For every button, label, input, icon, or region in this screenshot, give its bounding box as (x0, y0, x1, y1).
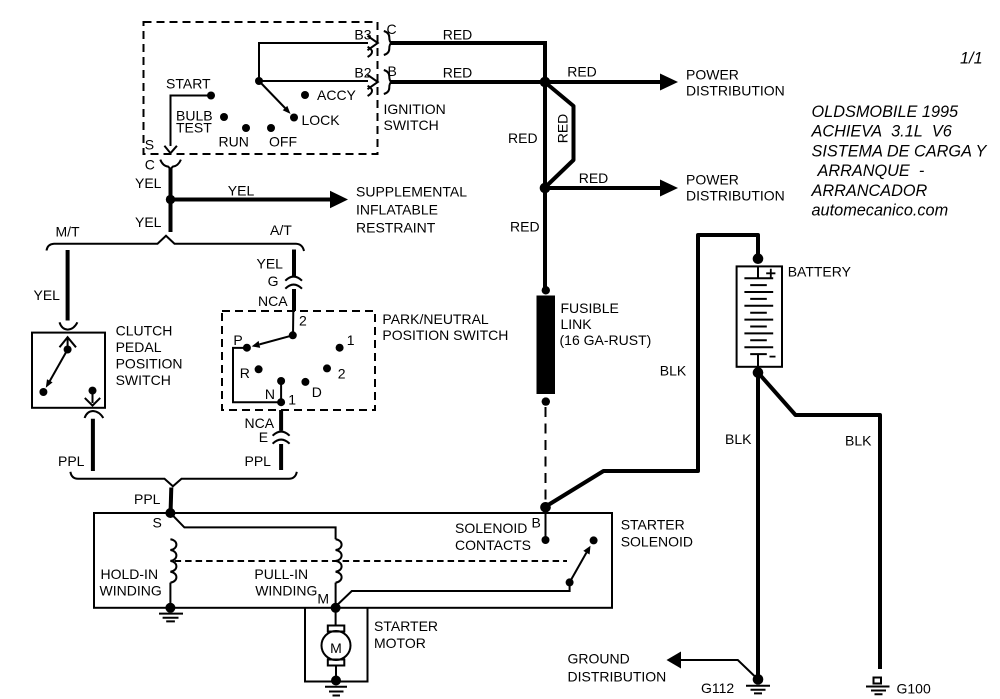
svg-text:P: P (233, 332, 242, 348)
svg-text:PPL: PPL (58, 453, 85, 469)
connector female cap below clutch switch (85, 411, 104, 418)
svg-text:BLK: BLK (725, 431, 752, 447)
svg-text:C: C (387, 21, 397, 37)
svg-text:ARRANQUE -: ARRANQUE - (817, 162, 925, 180)
wire M to movable contact (336, 584, 570, 607)
wire NCA below park/neutral (279, 410, 283, 431)
svg-text:CONTACTS: CONTACTS (455, 537, 531, 553)
starter solenoid box (94, 513, 612, 608)
svg-text:PULL-IN: PULL-IN (254, 566, 308, 582)
connector G double arc (285, 277, 302, 289)
ground symbol G112 (746, 686, 770, 694)
wire YEL arrow to SIR (171, 198, 333, 202)
motor circle M1 (322, 631, 351, 660)
wire motor to ground (335, 666, 337, 679)
wire BLK battery negative to G112 (756, 373, 760, 678)
svg-text:DISTRIBUTION: DISTRIBUTION (686, 188, 785, 204)
wire START to S terminal (171, 96, 212, 147)
wire RED arrow to power distribution 2 (545, 186, 662, 190)
battery top terminal dot (753, 253, 764, 264)
wire RED bypass loop (547, 84, 574, 187)
contact 2 (right) (323, 364, 331, 372)
clutch switch right contact (89, 387, 97, 395)
svg-text:automecanico.com: automecanico.com (812, 202, 949, 220)
wire N upper to N-1 (280, 381, 282, 402)
clutch switch entry arrow (up) (60, 337, 77, 349)
svg-text:TEST: TEST (176, 120, 212, 136)
svg-text:MOTOR: MOTOR (374, 635, 426, 651)
svg-text:ARRANCADOR: ARRANCADOR (811, 182, 928, 200)
svg-text:OLDSMOBILE 1995: OLDSMOBILE 1995 (812, 103, 960, 121)
svg-text:1: 1 (347, 332, 355, 348)
svg-text:(16 GA-RUST): (16 GA-RUST) (560, 332, 652, 348)
ignition switch dashed enclosure (144, 22, 378, 154)
svg-text:NCA: NCA (258, 293, 288, 309)
svg-text:RUN: RUN (219, 134, 249, 150)
svg-text:G112: G112 (701, 680, 734, 696)
ignition switch movable arm to LOCK (259, 81, 287, 110)
arrowhead power distribution 2 (660, 180, 678, 197)
connector female cup above clutch switch (60, 322, 78, 329)
svg-text:M/T: M/T (56, 224, 81, 240)
motor top brush (328, 626, 345, 632)
movable contact lower dot (566, 578, 574, 586)
contact upper dot (590, 536, 598, 544)
svg-text:D: D (312, 384, 322, 400)
svg-text:POSITION: POSITION (116, 356, 183, 372)
wire dashed fusible link to solenoid B (545, 407, 547, 502)
svg-text:B2: B2 (354, 65, 371, 81)
svg-text:1/1: 1/1 (960, 50, 983, 68)
wire B junction into solenoid (545, 507, 547, 540)
contact RUN (242, 124, 250, 132)
battery top stub (757, 266, 759, 278)
svg-text:RED: RED (443, 27, 473, 43)
contact D (301, 378, 309, 386)
svg-text:BATTERY: BATTERY (788, 264, 852, 280)
connector male arrow B3 (368, 36, 378, 50)
park/neutral movable arm (260, 335, 293, 344)
fusible link bottom dot (542, 397, 550, 405)
wire BLK battery negative to G100 (758, 373, 880, 669)
clutch arm arrowhead (46, 379, 53, 388)
wire YEL A/T branch (292, 250, 296, 277)
svg-text:G100: G100 (897, 681, 931, 697)
battery plates (744, 278, 773, 354)
wire YEL below junction (169, 201, 173, 232)
svg-text:YEL: YEL (257, 256, 284, 272)
svg-text:STARTER: STARTER (374, 618, 438, 634)
G112 ground dot (753, 674, 764, 685)
hold-in winding coil L1 (170, 539, 176, 582)
svg-text:GROUND: GROUND (568, 651, 630, 667)
arrowhead power distribution 1 (660, 74, 678, 91)
svg-text:RED: RED (555, 114, 571, 144)
svg-text:PPL: PPL (245, 453, 272, 469)
contact 1 (top right) (336, 344, 344, 352)
svg-text:R: R (240, 365, 250, 381)
svg-text:WINDING: WINDING (255, 583, 317, 599)
wire RED from B (390, 80, 545, 84)
svg-text:CLUTCH: CLUTCH (116, 323, 173, 339)
svg-text:BLK: BLK (845, 433, 872, 449)
overbrace M/T A/T split (47, 236, 305, 251)
svg-text:YEL: YEL (135, 214, 162, 230)
battery minus sign (770, 356, 776, 358)
connector female cup S/C (160, 160, 181, 170)
svg-text:N: N (265, 386, 275, 402)
ground distribution arrowhead (667, 652, 682, 669)
svg-text:SOLENOID: SOLENOID (455, 520, 527, 536)
ignition switch arm arrowhead (283, 106, 291, 114)
wire inside to pivot (292, 311, 294, 335)
svg-text:OFF: OFF (269, 134, 297, 150)
contact N-1 (277, 398, 285, 406)
svg-text:HOLD-IN: HOLD-IN (101, 566, 159, 582)
clutch pedal position switch box (32, 333, 105, 408)
svg-text:1: 1 (288, 392, 296, 408)
clutch switch exit arrow (down) (85, 394, 100, 406)
connector female C curly (384, 31, 392, 55)
svg-text:POWER: POWER (686, 172, 739, 188)
contact N upper (277, 377, 285, 385)
junction dot YEL (166, 195, 175, 204)
wire hold-in to ground (169, 583, 171, 604)
svg-text:STARTER: STARTER (621, 517, 685, 533)
svg-text:SWITCH: SWITCH (116, 372, 171, 388)
wire B2 (pivot to terminal B) (259, 80, 368, 82)
ground symbol (motor) (325, 687, 347, 696)
wire RED from C (390, 43, 545, 82)
svg-text:RED: RED (508, 130, 538, 146)
motor bottom brush (328, 660, 345, 666)
wire YEL from connector to junction (169, 168, 173, 199)
svg-text:SWITCH: SWITCH (384, 117, 439, 133)
park/neutral pivot contact (289, 331, 297, 339)
contact R (255, 365, 263, 373)
wire M down to brush (335, 608, 337, 626)
svg-text:POSITION SWITCH: POSITION SWITCH (382, 327, 508, 343)
connector male arrow B2 (368, 75, 378, 89)
svg-text:B: B (388, 63, 397, 79)
contact B dot (542, 536, 550, 544)
connector arc below B3 arrow (368, 47, 372, 57)
hold-in ground dot (165, 603, 175, 613)
contact LOCK (290, 114, 298, 122)
svg-text:2: 2 (299, 313, 307, 329)
solenoid contact arm (570, 553, 587, 583)
fusible link body (537, 296, 556, 395)
park/neutral arm arrowhead (252, 341, 261, 348)
svg-text:START: START (166, 76, 211, 92)
contact START (207, 92, 215, 100)
svg-text:POWER: POWER (686, 67, 739, 83)
contact BULB TEST (220, 113, 228, 121)
starter motor box (305, 608, 368, 682)
connector male arrow S (down) (164, 146, 177, 153)
svg-text:INFLATABLE: INFLATABLE (356, 202, 438, 218)
svg-text:SISTEMA DE CARGA Y: SISTEMA DE CARGA Y (812, 142, 988, 160)
wire RED main vertical (543, 82, 547, 288)
svg-text:B3: B3 (354, 27, 371, 43)
svg-text:A/T: A/T (270, 222, 292, 238)
battery plus sign (766, 269, 775, 278)
connector female B curly (384, 70, 392, 94)
wire ground distribution to G112 (680, 660, 756, 678)
ground symbol G100 (866, 687, 890, 695)
svg-text:DISTRIBUTION: DISTRIBUTION (568, 669, 667, 685)
svg-text:WINDING: WINDING (100, 583, 162, 599)
svg-text:ACHIEVA 3.1L V6: ACHIEVA 3.1L V6 (811, 123, 953, 141)
svg-text:S: S (145, 137, 154, 153)
pull-in winding coil L2 (336, 539, 342, 582)
clutch switch top contact (64, 346, 72, 354)
svg-text:M: M (330, 640, 342, 656)
junction dot upper (540, 77, 551, 88)
park/neutral position switch dashed box (222, 311, 375, 410)
connector arc below B2 arrow (368, 86, 372, 96)
svg-text:DISTRIBUTION: DISTRIBUTION (686, 83, 785, 99)
battery BT1 box (737, 266, 782, 366)
battery bottom stub (757, 354, 759, 367)
svg-text:LINK: LINK (561, 316, 593, 332)
wire P to N-1 (233, 348, 281, 402)
ground symbol (hold-in) (159, 614, 183, 622)
svg-text:RED: RED (510, 219, 540, 235)
svg-text:IGNITION: IGNITION (384, 101, 446, 117)
svg-text:BLK: BLK (660, 363, 687, 379)
underbrace PPL merge (70, 472, 296, 487)
svg-text:PEDAL: PEDAL (116, 339, 162, 355)
contact P (243, 344, 251, 352)
wire NCA into park/neutral switch (292, 289, 296, 311)
svg-text:SOLENOID: SOLENOID (621, 534, 693, 550)
svg-text:PPL: PPL (134, 491, 161, 507)
wire B3 (pivot to terminal C) (259, 43, 368, 81)
svg-text:2: 2 (338, 366, 346, 382)
wire RED arrow to power distribution 1 (545, 80, 662, 84)
svg-text:PARK/NEUTRAL: PARK/NEUTRAL (382, 311, 489, 327)
ignition switch pivot contact (255, 77, 263, 85)
svg-text:M: M (317, 591, 329, 607)
junction dot lower (540, 183, 551, 194)
svg-text:B: B (532, 515, 541, 531)
wire BLK battery positive feed (547, 235, 759, 506)
solenoid contact arm arrowhead (583, 546, 590, 555)
G100 terminal square (874, 678, 882, 684)
svg-text:YEL: YEL (34, 287, 61, 303)
clutch switch lower-left contact (39, 388, 47, 396)
svg-text:E: E (259, 429, 268, 445)
motor ground dot (331, 676, 341, 686)
arrowhead SIR (330, 191, 348, 209)
wire PPL clutch branch (91, 419, 95, 471)
svg-text:SUPPLEMENTAL: SUPPLEMENTAL (356, 184, 467, 200)
svg-text:C: C (145, 157, 155, 173)
solenoid B junction dot (540, 502, 551, 513)
svg-text:YEL: YEL (135, 175, 162, 191)
connector E double arc (273, 432, 290, 444)
svg-text:LOCK: LOCK (302, 112, 341, 128)
fusible link top dot (542, 286, 550, 294)
solenoid M terminal dot (331, 603, 341, 613)
wire pull-in to M (335, 583, 337, 606)
battery bottom terminal dot (753, 367, 764, 378)
svg-text:RED: RED (443, 65, 473, 81)
svg-text:YEL: YEL (228, 183, 255, 199)
wire PPL A/T branch (279, 444, 283, 470)
contact OFF (267, 124, 275, 132)
wire PPL to solenoid S (169, 488, 174, 512)
svg-text:RED: RED (567, 64, 597, 80)
wire YEL M/T branch (66, 250, 70, 321)
wire S to pull-in winding (170, 513, 335, 539)
solenoid S terminal dot (165, 508, 175, 518)
svg-text:FUSIBLE: FUSIBLE (561, 300, 619, 316)
svg-text:ACCY: ACCY (317, 87, 357, 103)
contact ACCY (301, 91, 309, 99)
clutch switch movable arm (50, 350, 68, 382)
svg-text:G: G (268, 273, 279, 289)
dashed mechanical link (175, 560, 567, 562)
svg-text:S: S (153, 515, 162, 531)
svg-text:RESTRAINT: RESTRAINT (356, 220, 436, 236)
svg-text:RED: RED (579, 170, 609, 186)
